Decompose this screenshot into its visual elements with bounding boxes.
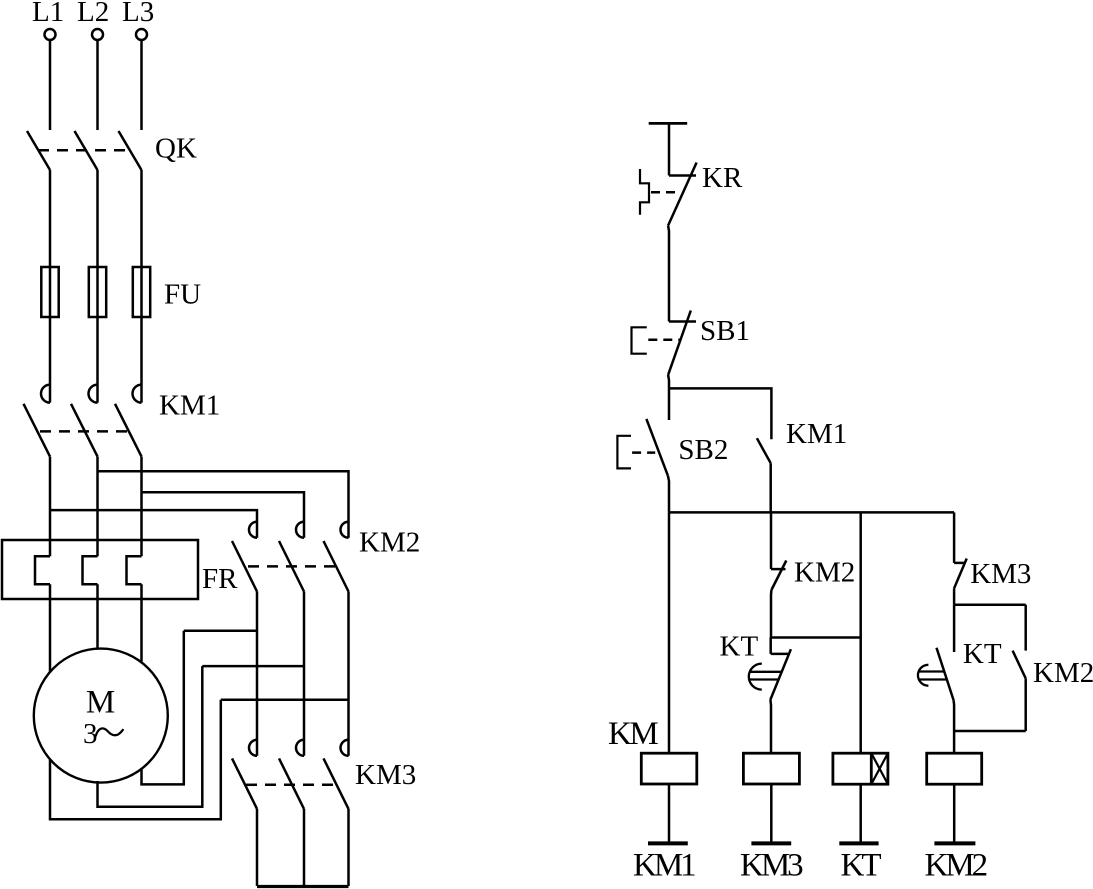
- wire riser1 to pole line 3: [221, 699, 349, 702]
- wire branch pole2 to KM2 pole3: [98, 471, 349, 538]
- terminal L2: [92, 29, 103, 40]
- coil KT X box divider: [870, 753, 873, 784]
- wire branch pole3 to KM2 pole2: [142, 492, 305, 538]
- coil KT X diagonal 1: [871, 753, 888, 784]
- thermal overload FR box: [2, 540, 198, 599]
- wire branch to KM1 aux: [669, 388, 771, 439]
- contact KT NO delay arc: [918, 665, 928, 686]
- coil KM2 box: [927, 753, 982, 784]
- wire branch2 from bus: [770, 512, 773, 569]
- button SB1 link dashed: [648, 339, 680, 342]
- wire KM2 NC to KT NC: [770, 590, 773, 638]
- wire KM1 pole1 down to FR heater: [49, 457, 52, 557]
- contact KT NC tick: [771, 653, 790, 656]
- wire branch2 to branch3 connector: [771, 636, 861, 639]
- thermal overload FR heater 1: [35, 556, 50, 584]
- split bar branch4: [954, 603, 1026, 606]
- wire L1 to QK: [49, 40, 52, 130]
- motor M circle: [34, 649, 168, 783]
- svg-text:KM2: KM2: [1033, 657, 1093, 689]
- button SB1 actuator: [632, 327, 647, 353]
- wire QK to KM1 pole3: [140, 170, 143, 403]
- contactor KM2 pole2 blade: [279, 541, 304, 592]
- wire riser3 to pole line 1: [184, 629, 257, 632]
- wire L3 to QK: [140, 40, 143, 130]
- wire riser2 to pole line 2: [202, 665, 304, 668]
- contactor KM1 linkage dashed: [40, 430, 129, 433]
- contact KT NO delay chord 2: [918, 678, 946, 680]
- wire branch1 to coil KM: [668, 512, 671, 753]
- thermal overload FR heater 2: [83, 556, 98, 584]
- wire to KT NO: [953, 605, 956, 652]
- svg-text:KM: KM: [608, 716, 658, 752]
- svg-text:SB1: SB1: [700, 315, 750, 347]
- contactor KM1 pole1 blade: [24, 404, 51, 457]
- contactor KM3 pole2 blade: [279, 758, 304, 809]
- wire KR to SB1: [667, 226, 670, 322]
- wire SB1 to SB2: [667, 375, 670, 420]
- wire KM2 pole3 to KM3 pole3: [347, 592, 350, 756]
- wire branch pole1 to KM2 pole1: [50, 510, 257, 538]
- button SB2 blade: [646, 419, 668, 476]
- relay contact KR blade: [668, 163, 697, 226]
- svg-text:KM1: KM1: [159, 390, 220, 422]
- wire KT NC to coil KM3: [769, 700, 772, 754]
- contact KT NC delay arc: [749, 664, 762, 690]
- wire KT NO to join: [952, 700, 955, 731]
- fuse FU 3: [133, 267, 150, 317]
- wire coil KM to ground: [668, 784, 671, 842]
- wire coil KM2 to ground: [953, 784, 956, 842]
- contactor KM2 pole3 contact arc: [341, 522, 349, 538]
- switch QK pole 1 blade: [27, 131, 50, 170]
- contactor KM1 pole1 contact arc: [41, 385, 50, 403]
- contactor KM3 linkage dashed: [246, 784, 337, 787]
- wire branch3 from bus to coil KT: [859, 512, 862, 753]
- contact KM2 aux blade: [1013, 651, 1026, 679]
- contactor KM2 pole1 blade: [232, 541, 257, 592]
- wire to KT NC contact: [769, 638, 772, 654]
- wire KM1 aux down to bus: [769, 463, 772, 512]
- contactor KM2 linkage dashed: [248, 565, 337, 568]
- contact KT NC delay chord 2: [750, 678, 779, 680]
- contact KT NO blade: [937, 648, 954, 701]
- svg-text:KM2: KM2: [794, 557, 855, 589]
- svg-text:KR: KR: [702, 162, 743, 194]
- contact KT NO delay chord 1: [918, 670, 944, 672]
- coil KT box: [833, 753, 888, 784]
- svg-text:FU: FU: [164, 279, 201, 311]
- contact KM3 NC tick: [954, 562, 965, 565]
- switch QK linkage dashed: [38, 149, 133, 152]
- terminal L3: [136, 29, 147, 40]
- svg-text:SB2: SB2: [678, 434, 728, 466]
- contact KM2 NC tick: [771, 568, 786, 571]
- control bus bar: [669, 511, 954, 514]
- terminal L1: [45, 29, 56, 40]
- relay contact KR fixed tick: [669, 174, 696, 177]
- svg-text:KM2: KM2: [925, 848, 987, 884]
- wire tap to KR: [668, 123, 671, 175]
- coil KM1 (KM) box: [641, 753, 697, 784]
- ground bar KT: [839, 841, 878, 845]
- wire KM3 pole2 down: [303, 809, 306, 886]
- wire FR to motor terminal 1: [49, 584, 52, 672]
- fuse FU 2: [89, 267, 106, 317]
- contactor KM3 pole1 contact arc: [249, 740, 257, 756]
- wire QK to KM1 pole1 (through fuse): [49, 170, 52, 403]
- ground bar KM1: [648, 841, 688, 845]
- wire QK to KM1 pole2: [96, 170, 99, 403]
- contactor KM1 pole3 contact arc: [133, 385, 142, 403]
- contactor KM1 pole3 blade: [115, 404, 142, 457]
- wire motor bottom 1 to riser: [50, 700, 221, 819]
- switch QK pole 2 blade: [75, 131, 98, 170]
- wire L2 to QK: [96, 40, 99, 130]
- wire KM3 bottom bar: [257, 885, 349, 888]
- wire coil KT to ground: [859, 784, 862, 842]
- ground bar KM3: [751, 841, 791, 845]
- svg-text:L3: L3: [122, 0, 154, 28]
- contact KT NC blade: [770, 649, 791, 699]
- contactor KM3 pole2 contact arc: [296, 740, 304, 756]
- wire KM1 pole3 down to FR heater: [140, 457, 143, 557]
- contact KM2 NC blade: [771, 561, 786, 591]
- svg-text:KM1: KM1: [633, 848, 695, 884]
- contactor KM2 pole1 contact arc: [249, 522, 257, 538]
- button SB1 fixed tick: [669, 320, 696, 323]
- wire FR to motor terminal 3: [140, 584, 143, 661]
- join bar branch4: [954, 730, 1026, 733]
- contactor KM2 pole2 contact arc: [296, 522, 304, 538]
- svg-text:KT: KT: [841, 848, 882, 884]
- wire KM3 pole3 down: [347, 809, 350, 886]
- wire KM3 NC to split: [953, 588, 956, 604]
- svg-text:KT: KT: [720, 631, 759, 663]
- relay KR heater element: [640, 169, 649, 215]
- button SB2 link dashed: [632, 451, 655, 454]
- button SB1 blade: [668, 311, 691, 375]
- contact KM3 NC blade: [954, 559, 967, 589]
- wire KM3 pole1 down: [256, 809, 259, 886]
- wire to KM2 aux NO: [1024, 605, 1027, 651]
- svg-text:KT: KT: [963, 638, 1002, 670]
- coil KM3 box: [743, 753, 799, 784]
- svg-text:QK: QK: [155, 133, 197, 165]
- relay KR link dashed: [651, 191, 681, 194]
- contactor KM3 pole1 blade: [232, 758, 257, 809]
- svg-text:M: M: [86, 685, 115, 721]
- contact KM1 aux blade: [757, 438, 771, 463]
- button SB2 actuator: [617, 436, 631, 469]
- wire FR to motor terminal 2: [96, 584, 99, 649]
- wire branch4 from bus: [953, 512, 956, 563]
- ground bar KM2: [934, 841, 975, 845]
- control power tap bar: [649, 122, 688, 125]
- wire motor bottom 3 to riser: [142, 631, 184, 785]
- wire coil KM3 to ground: [770, 784, 773, 842]
- svg-text:L2: L2: [77, 0, 109, 28]
- wire SB2 to bus: [668, 476, 669, 513]
- contactor KM3 pole3 contact arc: [341, 740, 349, 756]
- coil KT X diagonal 2: [871, 753, 888, 784]
- contactor KM1 pole2 blade: [71, 404, 98, 457]
- wire motor bottom 2 to riser: [98, 666, 203, 807]
- wire KM2 pole2 to KM3 pole2: [303, 592, 306, 756]
- motor label tilde: [96, 728, 124, 736]
- svg-text:KM3: KM3: [970, 558, 1031, 590]
- wire KM2 pole1 to KM3 pole1: [256, 592, 259, 756]
- svg-text:KM2: KM2: [359, 527, 420, 559]
- wire KM1 pole2 down to FR heater: [96, 457, 99, 557]
- switch QK pole 3 blade: [119, 131, 142, 170]
- svg-text:KM1: KM1: [786, 418, 847, 450]
- svg-text:KM3: KM3: [740, 848, 803, 884]
- thermal overload FR heater 3: [127, 556, 142, 584]
- wire join to coil KM2: [953, 731, 956, 753]
- fuse FU 1: [41, 267, 58, 317]
- svg-text:FR: FR: [202, 563, 238, 595]
- contactor KM2 pole3 blade: [324, 541, 349, 592]
- contactor KM3 pole3 blade: [324, 758, 349, 809]
- contactor KM1 pole2 contact arc: [89, 385, 98, 403]
- wire KM2 aux to join: [1024, 678, 1027, 731]
- svg-text:L1: L1: [32, 0, 64, 28]
- svg-text:KM3: KM3: [355, 759, 416, 791]
- contact KT NC delay chord 1: [750, 671, 781, 673]
